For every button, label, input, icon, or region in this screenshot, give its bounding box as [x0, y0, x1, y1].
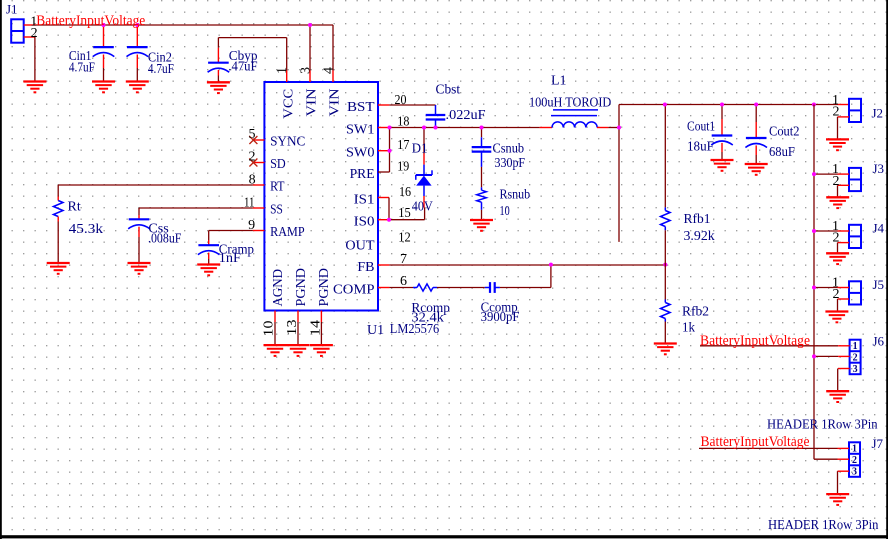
svg-text:2: 2	[852, 455, 857, 466]
svg-text:RT: RT	[270, 180, 285, 195]
svg-text:2: 2	[833, 287, 840, 302]
svg-text:PGND: PGND	[294, 268, 309, 307]
svg-text:13: 13	[285, 320, 300, 336]
svg-text:7: 7	[400, 252, 407, 267]
svg-text:BatteryInputVoltage: BatteryInputVoltage	[36, 13, 145, 29]
svg-text:Rt: Rt	[68, 200, 81, 215]
svg-text:100uH TOROID: 100uH TOROID	[529, 96, 611, 111]
svg-text:3: 3	[853, 364, 858, 375]
svg-text:Cout2: Cout2	[769, 125, 800, 140]
svg-text:J3: J3	[873, 161, 885, 176]
svg-text:IS1: IS1	[354, 193, 375, 208]
svg-text:IS0: IS0	[354, 215, 375, 230]
svg-text:3: 3	[299, 67, 314, 74]
svg-text:8: 8	[249, 173, 256, 188]
svg-text:40V: 40V	[412, 200, 433, 215]
svg-text:OUT: OUT	[345, 239, 375, 254]
svg-text:RAMP: RAMP	[270, 225, 305, 240]
svg-text:SW1: SW1	[346, 123, 375, 138]
svg-text:3900pF: 3900pF	[481, 310, 520, 325]
svg-text:BatteryInputVoltage: BatteryInputVoltage	[700, 333, 810, 349]
svg-text:VIN: VIN	[328, 89, 343, 117]
svg-text:SD: SD	[270, 157, 286, 172]
svg-text:1: 1	[275, 67, 290, 74]
svg-text:32.4k: 32.4k	[411, 311, 444, 326]
svg-text:2: 2	[833, 174, 840, 189]
svg-text:SS: SS	[270, 203, 283, 218]
svg-text:D1: D1	[412, 142, 428, 157]
svg-text:J5: J5	[873, 277, 885, 292]
svg-text:14: 14	[308, 320, 323, 336]
svg-text:U1: U1	[367, 323, 384, 338]
svg-text:10: 10	[261, 321, 276, 337]
svg-text:2: 2	[833, 105, 840, 120]
svg-text:1nF: 1nF	[219, 251, 241, 266]
svg-text:17: 17	[397, 138, 409, 153]
svg-text:2: 2	[833, 231, 840, 246]
svg-text:J7: J7	[872, 436, 884, 451]
svg-text:45.3k: 45.3k	[69, 222, 103, 237]
svg-text:6: 6	[400, 274, 407, 289]
svg-text:BST: BST	[347, 100, 375, 115]
svg-text:3: 3	[852, 467, 857, 478]
svg-text:18uF: 18uF	[687, 140, 714, 155]
svg-text:Rfb1: Rfb1	[684, 212, 711, 227]
svg-text:16: 16	[399, 185, 411, 200]
svg-text:VIN: VIN	[305, 89, 320, 117]
svg-text:12: 12	[398, 231, 411, 246]
svg-text:Cout1: Cout1	[687, 120, 715, 135]
svg-text:5: 5	[249, 127, 256, 142]
svg-text:1k: 1k	[682, 321, 695, 336]
svg-text:2: 2	[853, 352, 858, 363]
svg-text:AGND: AGND	[271, 269, 286, 307]
svg-text:1: 1	[852, 444, 857, 455]
svg-text:J4: J4	[873, 221, 885, 236]
svg-text:J6: J6	[873, 334, 885, 349]
svg-text:68uF: 68uF	[769, 145, 795, 160]
svg-text:L1: L1	[551, 74, 567, 89]
svg-text:20: 20	[395, 93, 407, 108]
svg-text:10: 10	[500, 204, 510, 219]
svg-text:HEADER 1Row 3Pin: HEADER 1Row 3Pin	[768, 518, 878, 533]
svg-text:J1: J1	[6, 2, 18, 17]
svg-text:COMP: COMP	[333, 283, 375, 298]
svg-text:15: 15	[398, 206, 411, 221]
svg-text:J2: J2	[872, 106, 884, 121]
svg-text:9: 9	[248, 218, 255, 233]
svg-text:SYNC: SYNC	[270, 135, 305, 150]
svg-text:VCC: VCC	[282, 89, 297, 119]
svg-text:SW0: SW0	[346, 146, 375, 161]
svg-text:3.92k: 3.92k	[684, 229, 715, 244]
svg-text:4.7uF: 4.7uF	[148, 62, 174, 77]
svg-text:Rfb2: Rfb2	[682, 305, 709, 320]
svg-text:2: 2	[31, 26, 38, 41]
svg-text:1: 1	[853, 341, 858, 352]
svg-text:FB: FB	[357, 260, 374, 275]
svg-text:Cbst: Cbst	[436, 82, 461, 97]
svg-text:.022uF: .022uF	[446, 108, 486, 123]
svg-text:Csnub: Csnub	[493, 142, 525, 157]
svg-text:2: 2	[249, 150, 256, 165]
svg-text:.008uF: .008uF	[148, 232, 182, 247]
svg-text:4: 4	[322, 67, 337, 74]
svg-text:19: 19	[397, 160, 409, 175]
svg-text:BatteryInputVoltage: BatteryInputVoltage	[701, 434, 810, 450]
svg-text:330pF: 330pF	[495, 156, 526, 171]
svg-text:.47uF: .47uF	[228, 60, 257, 75]
svg-text:HEADER 1Row 3Pin: HEADER 1Row 3Pin	[767, 418, 878, 433]
svg-text:11: 11	[244, 196, 255, 211]
svg-text:4.7uF: 4.7uF	[69, 61, 95, 76]
svg-text:18: 18	[397, 115, 409, 130]
svg-text:PGND: PGND	[317, 268, 332, 307]
svg-text:PRE: PRE	[350, 167, 375, 182]
svg-text:Rsnub: Rsnub	[500, 188, 531, 203]
